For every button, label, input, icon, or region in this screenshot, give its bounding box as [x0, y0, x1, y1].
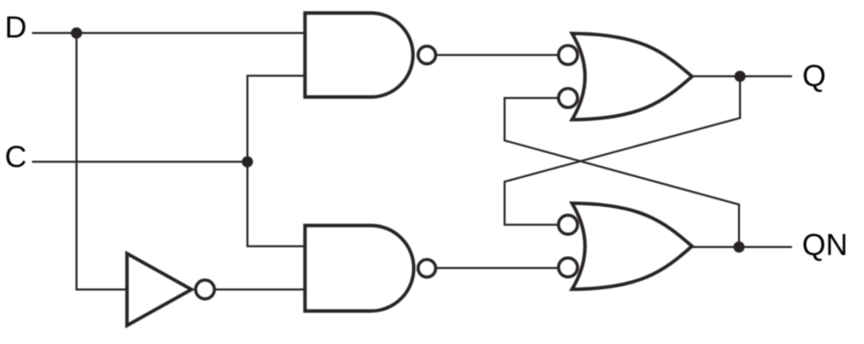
wire inverter output to NAND2: [216, 289, 306, 291]
or gate U5 input bubble lower: [559, 258, 578, 277]
wire NAND2 output to OR2 input: [437, 267, 558, 269]
nand gate U2 body: [305, 226, 414, 312]
wire D vertical to inverter: [77, 33, 128, 290]
or gate U5 body: [572, 203, 692, 289]
svg-text:Q: Q: [802, 59, 826, 93]
wire QN feedback to OR1 lower input: [505, 98, 739, 247]
inverter U3 output bubble: [196, 280, 215, 299]
wire C vertical branch: [247, 76, 305, 247]
or gate U4 input bubble upper: [559, 46, 578, 65]
nand gate U1 output bubble: [418, 46, 436, 64]
or gate U4 body: [572, 33, 692, 119]
node Q junction: [734, 71, 745, 82]
wire NAND1 output to OR1 input: [437, 54, 558, 56]
node D junction: [71, 27, 82, 38]
wire Q feedback to OR2 upper input: [505, 76, 740, 224]
or gate U5 input bubble upper: [559, 215, 578, 234]
svg-text:C: C: [5, 140, 27, 174]
node QN junction: [733, 241, 744, 252]
nand gate U1 body: [305, 13, 413, 97]
svg-text:D: D: [5, 11, 27, 45]
nand gate U2 output bubble: [418, 260, 436, 278]
wire OR2 output to QN: [692, 246, 792, 248]
wire OR1 output to Q: [692, 75, 792, 77]
wire D input lead: [32, 32, 305, 34]
svg-text:QN: QN: [802, 228, 848, 262]
node C junction: [242, 156, 253, 167]
or gate U4 input bubble lower: [559, 89, 578, 108]
wire C input lead: [32, 161, 247, 163]
inverter U3 body: [127, 254, 192, 326]
